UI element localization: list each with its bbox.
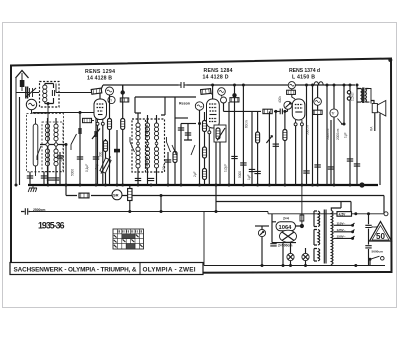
svg-text:150V~: 150V~ — [337, 234, 346, 238]
resistor R19 — [82, 118, 94, 122]
capacitor C9 — [148, 176, 157, 185]
coupling capacitor C11 — [178, 124, 196, 186]
svg-text:2×4: 2×4 — [283, 217, 289, 221]
wire y97 — [135, 96, 196, 98]
tube V3 RENS1374d — [292, 89, 305, 185]
wire grid stub — [122, 85, 124, 93]
wire anode v3 — [307, 85, 328, 185]
antenna plug P1 — [20, 80, 25, 91]
circle small — [221, 95, 227, 111]
wire rectifier drop — [283, 243, 291, 266]
wire AVC line — [66, 185, 384, 214]
label V1 — [85, 69, 115, 82]
capacitor C6 — [57, 152, 63, 185]
corner mark — [388, 58, 392, 62]
capacitor C25 — [303, 165, 321, 173]
svg-text:L 4150 B: L 4150 B — [292, 74, 315, 80]
pickup terminals — [347, 91, 354, 101]
tube V1 RENS1294 — [94, 99, 107, 125]
node j6 — [128, 210, 131, 213]
padder capacitor C4 — [77, 113, 83, 186]
svg-text:5000cm: 5000cm — [372, 250, 384, 254]
screen feed C14 — [224, 102, 230, 185]
ground — [28, 185, 37, 192]
svg-text:1935-36: 1935-36 — [38, 221, 65, 231]
node j1 — [79, 111, 82, 114]
wire grid feed — [16, 78, 105, 185]
field choke — [300, 185, 304, 228]
border frame of schematic — [11, 59, 392, 274]
capacitor C20 — [354, 84, 360, 186]
grid resistor R2 — [56, 85, 103, 99]
svg-text:14 4128 B: 14 4128 B — [87, 75, 112, 81]
trimmer arrow — [266, 111, 272, 185]
circle Tr1 — [108, 96, 115, 103]
svg-text:5000: 5000 — [59, 155, 63, 162]
svg-text:1µF: 1µF — [247, 174, 251, 180]
svg-text:RENS 1284: RENS 1284 — [204, 68, 233, 74]
dial lamp 2 — [302, 248, 309, 266]
wire earth link — [32, 106, 49, 185]
label V2 — [203, 68, 233, 80]
svg-text:50: 50 — [376, 232, 385, 241]
resistor R17 — [79, 193, 89, 198]
mains taps — [334, 221, 355, 239]
capacitor C23 — [365, 214, 383, 266]
svg-text:2µF: 2µF — [193, 171, 197, 177]
loudspeaker LS — [369, 89, 386, 186]
capacitor C3 — [47, 176, 59, 185]
svg-text:1,5kΩ: 1,5kΩ — [351, 92, 355, 101]
wire reson drop — [198, 110, 201, 185]
svg-text:5000cm: 5000cm — [326, 128, 330, 140]
wire lower bus — [30, 211, 204, 213]
filter capacitor C22 — [270, 243, 292, 247]
fuse resistor — [337, 212, 352, 217]
node j8 — [354, 212, 357, 215]
capacitor C8 — [135, 176, 141, 185]
output transformer T2 — [357, 88, 369, 104]
screen circle V3 — [314, 85, 322, 110]
oscillator coil pack (dashed box) — [132, 113, 165, 176]
svg-text:50m: 50m — [162, 163, 166, 170]
tuner shield (dashed box) — [27, 114, 64, 172]
svg-text:300: 300 — [99, 151, 103, 157]
resistor R9 — [230, 98, 239, 102]
PSU enclosure — [204, 212, 385, 266]
power transformer T1 — [314, 202, 341, 266]
grid capacitor C17 — [273, 111, 279, 185]
wire k1 — [65, 145, 67, 186]
grid leak R7 — [203, 112, 207, 185]
node heavy2 — [232, 93, 236, 97]
control circle SR — [112, 190, 122, 200]
volume potentiometer box — [214, 125, 226, 185]
series capacitor C13 — [160, 82, 200, 88]
rectifier 1064 — [272, 214, 301, 243]
svg-text:60cm: 60cm — [245, 120, 249, 128]
wire input drop — [19, 97, 21, 185]
svg-text:SACHSENWERK - OLYMPIA - TRIUMP: SACHSENWERK - OLYMPIA - TRIUMPH, & — [14, 267, 137, 274]
dial lamp 1 — [287, 253, 294, 265]
node j3 — [65, 143, 68, 146]
antenna coil L1 (dashed box) — [40, 82, 60, 108]
capacitor C19 — [347, 85, 353, 185]
capacitor C26 — [27, 172, 33, 185]
svg-text:2000cm: 2000cm — [336, 128, 340, 140]
svg-text:OLYMPIA - ZWEI: OLYMPIA - ZWEI — [143, 267, 196, 274]
switch S2 — [71, 134, 77, 150]
screen circle S2 — [218, 88, 226, 96]
cathode block C7 — [114, 130, 120, 185]
padding resistor R6 — [173, 97, 177, 185]
cathode resistor R4 — [108, 95, 112, 185]
switch S5 — [172, 145, 195, 155]
svg-text:1,0µF: 1,0µF — [224, 164, 228, 172]
resistor R12 — [254, 111, 260, 185]
grid circle V3 — [288, 82, 295, 89]
grid resistor R15 — [287, 90, 296, 94]
node heavy — [121, 90, 125, 94]
antenna — [16, 71, 29, 81]
frequency triangle 50 — [370, 222, 392, 242]
screen bypass circle S — [106, 87, 114, 95]
tube V2 RENS1284 — [207, 85, 220, 185]
resistor R18 — [128, 185, 132, 212]
wire anode feed — [311, 84, 314, 187]
wire top bus — [103, 84, 355, 86]
tuner coil L2/L3 (dashed box) — [40, 118, 66, 176]
screen resistor R16 — [313, 110, 322, 185]
switch S3 — [130, 137, 135, 152]
wire osc top — [135, 97, 165, 115]
svg-text:Reson: Reson — [179, 102, 190, 106]
svg-text:14 4128 D: 14 4128 D — [203, 74, 229, 80]
trimmer C5 — [92, 113, 100, 186]
trimmer capacitor C1 — [16, 87, 39, 99]
title strip — [10, 263, 203, 275]
meter circle — [255, 226, 269, 266]
wire v1 pins — [98, 125, 103, 185]
resistor R1 — [99, 139, 108, 159]
screen resistor R5 — [121, 85, 125, 185]
main ground bus — [28, 184, 378, 186]
interstage link — [175, 117, 188, 119]
capacitor C10 — [162, 152, 171, 185]
wire antenna drop — [15, 78, 17, 185]
switch S4 — [167, 137, 171, 152]
svg-text:5000: 5000 — [71, 169, 75, 176]
node j9 — [367, 212, 370, 215]
volume resistor R13 — [263, 109, 272, 113]
grid stopper R8 — [201, 89, 213, 95]
node j4 — [274, 110, 277, 113]
svg-text:2500cm: 2500cm — [33, 208, 45, 212]
mains switch — [261, 256, 385, 267]
top bus dots — [121, 84, 351, 95]
capacitor C2 — [41, 172, 47, 186]
wire HT drop — [216, 185, 351, 214]
svg-text:5000: 5000 — [238, 171, 242, 178]
potentiometer P2 — [94, 157, 111, 186]
decoupling C15 — [238, 85, 247, 185]
capacitor C12 — [184, 124, 192, 141]
resistor R3 — [120, 98, 129, 102]
svg-text:SR: SR — [113, 193, 119, 198]
svg-text:400k: 400k — [278, 96, 282, 103]
node j7 — [215, 210, 218, 213]
node j5 — [283, 110, 286, 113]
node j2 — [95, 111, 98, 114]
grid resistor R14 — [283, 111, 287, 185]
svg-text:RENS 1374 d: RENS 1374 d — [289, 68, 320, 74]
capacitor C24 — [328, 120, 334, 185]
alignment table — [113, 229, 144, 249]
bus junction dots — [15, 182, 365, 187]
potentiometer circle P3 — [278, 96, 292, 110]
svg-text:RENS 1294: RENS 1294 — [85, 69, 115, 75]
resonance circle — [179, 102, 204, 111]
tuning gang block — [33, 118, 38, 176]
svg-text:110V~: 110V~ — [337, 221, 346, 225]
anode resistor R10 — [231, 85, 237, 185]
tone capacitor C18 — [338, 85, 346, 126]
resistor R11 — [249, 111, 255, 185]
capacitor C21 — [21, 208, 45, 215]
label V3 — [289, 68, 320, 80]
wire avc drop — [160, 194, 163, 213]
svg-text:125V~: 125V~ — [337, 228, 346, 232]
AF coupling wire — [224, 110, 288, 112]
svg-text:500cm: 500cm — [305, 125, 309, 135]
mains terminal — [384, 212, 388, 216]
circle Tr2 — [330, 85, 338, 185]
svg-text:0,1µF: 0,1µF — [85, 164, 89, 172]
svg-text:4,5V: 4,5V — [339, 212, 347, 216]
band switch S1 — [37, 146, 41, 160]
series capacitor C16 — [280, 109, 282, 115]
earth socket E — [26, 99, 36, 113]
svg-text:1µF: 1µF — [343, 132, 347, 138]
choke L4 — [314, 82, 323, 85]
